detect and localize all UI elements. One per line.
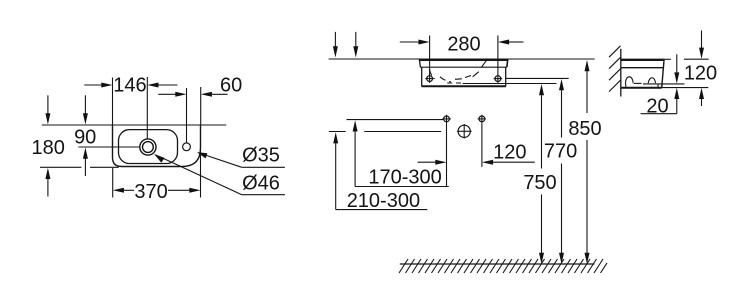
dimension 146 right arrow [147,83,177,88]
floor hatching [399,259,607,273]
210-300 up arrow [333,132,338,209]
side rim top [621,59,664,61]
tap hole circle [183,143,191,151]
svg-text:750: 750 [523,172,556,194]
side right edge [662,59,664,87]
extension line tap center [186,88,188,143]
dimension 280 left extension [429,36,431,75]
dimension 370 left arrow [113,188,134,193]
extension below left fixing point [446,123,448,186]
dimension 20 up arrow [674,88,679,114]
basin rim left edge [419,59,420,67]
svg-text:210-300: 210-300 [347,190,420,212]
170-300 shelf [355,186,449,188]
reference line 750 [463,83,557,85]
svg-text:180: 180 [32,137,65,159]
reference tick for 210-300 [329,131,346,133]
wall hatching [609,46,621,92]
drain outlet symbol [457,124,472,139]
dimension 60 left arrow [158,92,186,97]
dimension 750 line [539,84,544,264]
svg-text:370: 370 [134,181,167,203]
side hidden bowl bump right [648,78,655,83]
reference line 120 top [684,58,709,60]
drain inner circle [143,142,154,153]
hidden bowl outline dashes [429,69,435,79]
basin top edge line [42,124,226,126]
wall line [329,58,595,60]
fixing point right [478,115,486,124]
dimension 280 right arrow [498,40,524,45]
svg-text:20: 20 [646,96,668,118]
basin body left edge [421,67,423,86]
dimension 770 line [559,79,564,264]
bottom extension line left of basin [40,166,81,168]
svg-text:120: 120 [493,142,526,164]
inner bowl [119,130,178,164]
dimension 60 right arrow [201,92,228,97]
side bottom edge [621,87,662,89]
dimension 120 down arrow [699,31,704,59]
dimension 120 left arrow [418,160,447,165]
svg-text:280: 280 [447,34,480,56]
reference line at drain height [364,131,441,133]
basin body right edge [505,67,507,86]
dimension 370 left extension [112,168,114,198]
svg-text:170-300: 170-300 [368,167,441,189]
side hidden bowl dash [634,82,642,84]
bolt hole right [494,74,503,83]
210-300 shelf [336,209,428,211]
dimension 180 top arrow [45,95,50,124]
wall line side view [620,49,622,97]
svg-text:90: 90 [74,126,96,148]
extension below right fixing point [481,123,483,167]
svg-text:120: 120 [684,62,717,84]
svg-text:850: 850 [568,118,601,140]
dimension 20 down arrow [674,54,679,83]
bottom extension line segment [90,166,119,168]
bolt hole left [425,74,434,83]
dimension 146 left arrow [84,83,112,88]
side bottom reference line [662,87,709,89]
dimension 280 left arrow [400,40,430,45]
basin rim top [419,59,508,61]
side hidden vertical dash right [657,84,659,88]
svg-text:Ø46: Ø46 [242,173,280,195]
wall down arrow 170-300 [353,32,358,58]
reference line for 170-300 [347,119,444,121]
basin body bottom [422,85,506,87]
drain center line [78,146,139,148]
dimension 280 right extension [497,36,499,75]
svg-text:146: 146 [113,74,146,96]
dimension 90 top arrow [83,95,88,124]
dimension 370 right extension [200,150,202,198]
floor line [400,263,595,265]
170-300 up arrow [353,120,358,186]
leader Ø46 [154,154,285,195]
bowl edge curve right [481,60,487,67]
wall down arrow 210-300 [333,32,338,58]
extension line basin right edge [200,87,202,125]
fixing point left [442,115,451,124]
side hidden vertical dash left [625,85,627,88]
basin outline [113,125,201,167]
side drain reference line [643,83,685,85]
dimension 20 shelf [641,113,677,115]
basin rim right edge [507,59,508,67]
svg-text:60: 60 [220,74,242,96]
svg-text:770: 770 [544,140,577,162]
extension line drain center [146,77,148,139]
side hidden bowl bump left [626,77,634,85]
side rim top extension [664,58,671,60]
dimension 370 right arrow [168,188,201,193]
dimension 120 right arrow [482,160,535,165]
dimension 180 bottom arrow [45,168,50,197]
dimension 850 line [585,60,590,264]
dimension 90 bottom arrow [83,148,88,177]
drain outer circle [140,139,156,155]
basin rim bottom [420,66,507,68]
dimension 120 up arrow [699,88,704,106]
svg-text:Ø35: Ø35 [242,145,280,167]
reference line 770 [506,77,569,79]
side rim bottom [621,67,664,69]
leader Ø35 [197,152,285,167]
extension line x=112.5 [112,78,114,126]
